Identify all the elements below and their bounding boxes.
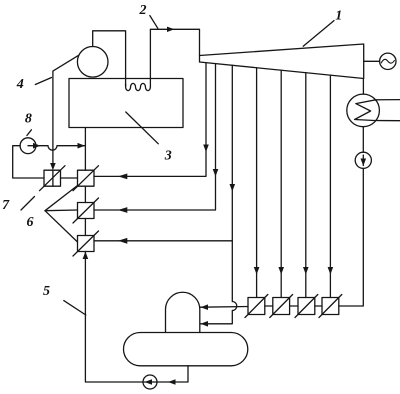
extraction 3 with hop xyxy=(200,65,237,324)
leader line to steam pipe xyxy=(150,16,158,29)
arrow down extraction 2 xyxy=(213,169,219,177)
wire connector 4a-4b xyxy=(265,305,273,307)
leader line to heater 6b xyxy=(45,209,78,212)
wire connector heater 7 to 6a xyxy=(61,177,78,179)
turbine T xyxy=(200,44,364,79)
heater 6c xyxy=(78,236,95,252)
arrow up into heater 6c xyxy=(83,252,89,260)
svg-text:6: 6 xyxy=(27,215,34,230)
heater 6a xyxy=(78,170,95,186)
leader line to heater 6a xyxy=(45,186,78,211)
heater 6b xyxy=(78,203,95,219)
extraction 5 xyxy=(280,70,282,297)
wire condensate line down xyxy=(339,168,364,306)
deaerator tank xyxy=(124,333,248,366)
arrow down extraction 7 xyxy=(328,267,334,275)
svg-text:8: 8 xyxy=(25,111,32,126)
pump 8 xyxy=(20,138,36,154)
arrow in feed pump xyxy=(145,379,153,385)
arrow down into heater 7 xyxy=(50,163,56,170)
feedwater riser xyxy=(84,128,86,171)
LP heater 4c xyxy=(298,298,315,315)
arrow down extraction 5 xyxy=(278,267,284,275)
wire generator shaft xyxy=(364,60,380,62)
extraction 2 xyxy=(94,64,216,210)
svg-text:3: 3 xyxy=(164,149,172,164)
svg-text:4: 4 xyxy=(16,77,24,92)
arrow into deaerator head xyxy=(201,321,209,327)
leader line to pump 8 xyxy=(27,130,32,136)
arrow into deaerator head upper xyxy=(201,304,209,310)
boiler furnace 3 xyxy=(69,79,183,128)
svg-text:5: 5 xyxy=(43,284,50,299)
svg-text:7: 7 xyxy=(2,198,10,213)
arrow main steam xyxy=(167,27,175,32)
arrow after pump 8 xyxy=(33,143,41,149)
svg-text:1: 1 xyxy=(335,9,342,24)
condensate pump xyxy=(355,152,371,168)
arrow into feed pump xyxy=(168,379,176,385)
arrow into heater 6a xyxy=(118,174,127,180)
wire inside heater 7 xyxy=(52,170,54,186)
superheater coil xyxy=(126,83,151,90)
wire drum to superheater xyxy=(93,31,126,86)
arrow down extraction 1 xyxy=(203,145,209,153)
svg-text:2: 2 xyxy=(139,3,147,18)
extraction 7 xyxy=(329,75,331,297)
leader line to downcomer xyxy=(35,78,51,85)
arrow into heater 6b xyxy=(118,207,127,213)
heater 7 xyxy=(44,170,61,186)
cooling water coil xyxy=(355,100,400,121)
wire connector 4b-4c xyxy=(290,305,298,307)
LP heater 4a xyxy=(248,298,265,315)
wire extraction 3 branch to heater 6c xyxy=(94,240,232,242)
leader line to boiler xyxy=(126,112,159,144)
wire turbine exhaust to condenser xyxy=(362,79,364,95)
wire connector 4c-4d xyxy=(315,305,322,307)
leader line to turbine xyxy=(303,21,334,47)
drum xyxy=(77,47,108,78)
leader line to heater 7 xyxy=(21,197,35,211)
arrow in condensate pump xyxy=(361,159,367,167)
arrow into feed riser xyxy=(78,143,86,149)
arrow down extraction 6 xyxy=(303,267,309,275)
wire deaerator outlet xyxy=(157,366,188,382)
wire pump 8 discharge with hop xyxy=(28,146,85,151)
leader line to riser xyxy=(64,301,86,315)
wire downcomer from drum xyxy=(53,55,79,165)
arrow down extraction 4 xyxy=(254,267,260,275)
feed pump xyxy=(143,375,157,389)
condenser xyxy=(347,94,380,127)
LP heater 4b xyxy=(273,298,290,315)
wire riser between 6b and 6c xyxy=(84,219,86,236)
wire riser between 6a and 6b xyxy=(84,186,86,202)
wire condenser to pump xyxy=(362,127,364,153)
leader line to heater 6c xyxy=(45,211,78,242)
extraction 6 xyxy=(305,73,307,298)
LP heater 4d xyxy=(322,298,339,315)
arrow down extraction 3 xyxy=(230,184,236,192)
extraction 1 xyxy=(94,63,206,177)
wire riser to bottom xyxy=(85,252,143,383)
wire pump 8 suction loop xyxy=(13,146,44,178)
arrow into heater 6c xyxy=(118,238,127,244)
deaerator head xyxy=(166,292,200,332)
extraction 4 xyxy=(256,68,258,298)
wire main steam line to turbine xyxy=(150,29,199,87)
generator G xyxy=(380,53,396,69)
wire condensate to deaerator head xyxy=(200,306,248,309)
